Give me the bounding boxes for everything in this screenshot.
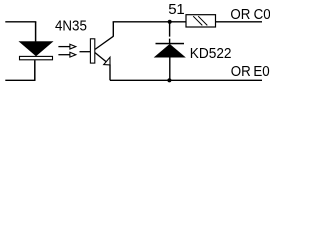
resistor R1 power mark 1 [193,16,202,25]
svg-text:C0: C0 [254,7,270,24]
svg-text:E0: E0 [253,63,269,80]
svg-text:4N35: 4N35 [55,18,87,35]
LED VD1 triangle (optocoupler emitter diode) [19,42,52,56]
wire diode anode lead [169,57,171,80]
phototransistor VT1 emitter arrowhead [104,57,110,65]
label KD522 diode [190,46,232,63]
wire bottom-left [5,79,35,81]
svg-text:51: 51 [168,1,184,18]
svg-text:OR: OR [231,63,251,80]
wire LED anode lead [35,22,37,42]
LED VD1 cathode bar (hollow) [20,56,53,59]
light arrow 1 [58,44,75,49]
diode VD2 triangle [155,44,186,57]
resistor R1 body [186,15,216,27]
light arrow 2 [58,52,75,57]
label net OR E0 [231,63,270,80]
label net OR C0 [230,7,270,24]
diode VD2 cathode bar [156,43,185,45]
junction node bottom [167,78,171,82]
junction node top [168,20,172,24]
svg-text:OR: OR [230,7,250,24]
wire emitter vertical [109,65,111,81]
svg-text:KD522: KD522 [190,46,232,63]
wire top rail (collector to resistor) [113,21,186,23]
phototransistor VT1 base bar (hollow) [90,39,94,63]
phototransistor VT1 emitter diagonal [95,53,110,65]
phototransistor VT1 base lead [80,51,91,53]
resistor R1 power mark 2 [198,16,207,25]
phototransistor VT1 collector diagonal [95,36,113,49]
wire bottom rail (emitter to OR E0) [110,79,262,81]
wire diode cathode lead [169,22,171,43]
label 4N35 optocoupler [55,18,87,35]
wire top-right rail (resistor to OR C0) [216,21,263,23]
wire top-left (to LED anode) [5,21,36,23]
wire LED cathode lead [34,60,36,80]
wire collector vertical [112,22,114,37]
